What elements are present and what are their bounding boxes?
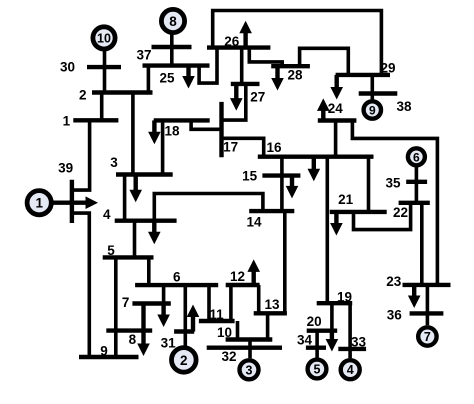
svg-text:20: 20 xyxy=(307,314,322,329)
load arrow 12 xyxy=(247,259,260,285)
svg-text:30: 30 xyxy=(60,60,75,75)
bus 3 bar xyxy=(116,172,173,176)
bus 20 bar xyxy=(307,329,338,333)
svg-text:4: 4 xyxy=(103,207,111,222)
svg-text:13: 13 xyxy=(264,297,280,312)
bus 37 bar xyxy=(152,45,192,49)
generator G10 xyxy=(93,27,115,49)
svg-text:14: 14 xyxy=(246,214,262,229)
bus 36 bar xyxy=(410,311,444,315)
svg-text:5: 5 xyxy=(314,363,321,377)
svg-text:38: 38 xyxy=(396,99,412,114)
wire 26-28 xyxy=(249,48,282,67)
bus 14 bar xyxy=(249,209,294,213)
wire 1-2 xyxy=(100,93,104,121)
wire 19-20 xyxy=(330,303,334,331)
bus 24 bar xyxy=(318,118,357,122)
bus 23 bar xyxy=(403,283,451,287)
svg-text:39: 39 xyxy=(58,160,73,175)
bus 31 bar xyxy=(174,329,194,333)
svg-text:36: 36 xyxy=(387,308,403,323)
svg-text:4: 4 xyxy=(347,363,354,377)
wire 22-23 xyxy=(420,203,424,285)
wire 26-27 xyxy=(240,48,244,84)
wire 26-29 xyxy=(213,11,382,75)
svg-text:10: 10 xyxy=(97,31,111,45)
bus 28 bar xyxy=(271,64,310,68)
bus 10 bar xyxy=(226,337,273,341)
bus 32 bar xyxy=(207,346,282,350)
svg-text:35: 35 xyxy=(385,176,401,191)
wire 13-14 xyxy=(283,211,287,313)
svg-text:22: 22 xyxy=(393,205,408,220)
svg-text:37: 37 xyxy=(136,48,151,63)
wire 28-29 xyxy=(300,48,349,75)
generator G3 xyxy=(240,360,259,379)
load arrow 31 xyxy=(187,305,200,332)
svg-text:10: 10 xyxy=(217,325,232,340)
bus 38 bar xyxy=(359,91,398,95)
wire 29-38-gen9 xyxy=(370,75,374,100)
bus 15 bar xyxy=(262,173,300,177)
svg-text:21: 21 xyxy=(338,192,354,207)
svg-text:31: 31 xyxy=(161,336,177,351)
bus 6 bar xyxy=(135,283,218,287)
bus 35 bar xyxy=(406,180,427,184)
wire 18-3 xyxy=(161,120,165,174)
wire 12-13 xyxy=(257,285,261,313)
svg-text:9: 9 xyxy=(100,344,108,359)
generator G1 xyxy=(27,191,51,215)
svg-text:12: 12 xyxy=(230,269,245,284)
wire 39-9 xyxy=(70,213,89,357)
generator G9 xyxy=(364,101,381,118)
wire 17-27 xyxy=(222,84,246,120)
svg-text:17: 17 xyxy=(223,140,238,155)
wire 3-4 xyxy=(123,175,127,221)
svg-text:6: 6 xyxy=(413,150,420,164)
svg-text:3: 3 xyxy=(110,155,118,170)
bus 9 bar xyxy=(79,355,139,359)
svg-text:19: 19 xyxy=(337,290,352,305)
wire 6-7 xyxy=(162,285,166,303)
svg-text:9: 9 xyxy=(369,104,376,118)
svg-text:7: 7 xyxy=(122,295,130,310)
load arrow 21 xyxy=(330,212,343,236)
wire 17-18 xyxy=(191,120,221,129)
wire 16-21 xyxy=(367,157,371,212)
svg-text:24: 24 xyxy=(328,101,344,116)
svg-text:27: 27 xyxy=(250,89,265,104)
load arrow 28 xyxy=(271,66,284,90)
svg-text:15: 15 xyxy=(242,169,258,184)
load arrow 18 xyxy=(148,120,161,144)
bus 19 bar xyxy=(317,301,353,305)
load arrow 16 xyxy=(308,157,321,182)
generator G2 xyxy=(172,348,197,373)
wire 19-33-gen4 xyxy=(348,303,352,358)
bus 39 bar xyxy=(70,180,74,223)
bus 11 bar xyxy=(199,319,235,323)
wire 16-24 xyxy=(334,121,338,157)
generator G4 xyxy=(341,360,360,379)
wire 6-31-gen2 xyxy=(184,285,188,345)
svg-text:8: 8 xyxy=(129,332,137,347)
bus 13 bar xyxy=(254,311,287,315)
svg-text:6: 6 xyxy=(173,270,181,285)
wire 10-32-gen3 xyxy=(248,340,252,359)
load arrow 25 xyxy=(182,66,195,89)
load arrow 8 xyxy=(137,304,150,357)
bus 7 bar xyxy=(132,301,170,305)
svg-text:33: 33 xyxy=(351,335,367,350)
wire gen8-37-25 xyxy=(170,35,174,66)
svg-text:11: 11 xyxy=(209,307,224,322)
bus 33 bar xyxy=(338,347,366,351)
bus 18 bar xyxy=(154,118,210,122)
bus 22 bar xyxy=(399,201,430,205)
load arrow 20 xyxy=(326,331,339,352)
bus 4 bar xyxy=(115,218,177,222)
load arrow 15 xyxy=(286,176,299,199)
bus 29 bar xyxy=(336,73,390,77)
svg-text:8: 8 xyxy=(169,14,177,29)
svg-text:23: 23 xyxy=(386,274,402,289)
wire 4-14 xyxy=(154,194,263,221)
bus 27 bar xyxy=(231,82,260,86)
wire 5-8-9 xyxy=(114,257,118,357)
load arrow 24 xyxy=(317,98,330,120)
load arrow 7 xyxy=(157,304,170,328)
wire 10-11 xyxy=(236,321,240,340)
svg-text:2: 2 xyxy=(180,353,188,368)
bus 16 bar xyxy=(258,154,374,158)
svg-text:1: 1 xyxy=(35,196,43,211)
svg-text:5: 5 xyxy=(107,243,115,258)
wire 21-22 xyxy=(354,203,411,230)
wire 24-23 xyxy=(352,121,437,285)
svg-text:28: 28 xyxy=(287,67,303,82)
wire 15-16 xyxy=(280,157,284,176)
load arrow 29 xyxy=(330,75,343,100)
wire gen10-30-2 xyxy=(103,51,107,93)
svg-text:32: 32 xyxy=(221,349,236,364)
wire 1-39 xyxy=(70,120,90,190)
svg-text:3: 3 xyxy=(246,363,253,377)
generator G6 xyxy=(408,148,425,165)
bus 21 bar xyxy=(330,210,387,214)
bus 5 bar xyxy=(103,255,154,259)
svg-text:7: 7 xyxy=(424,330,431,344)
bus 8 bar xyxy=(106,328,152,332)
wire 6-11 xyxy=(207,285,211,321)
generator G7 xyxy=(418,327,436,345)
svg-text:26: 26 xyxy=(224,34,240,49)
generator G5 xyxy=(308,360,327,379)
wire 14-15 xyxy=(280,176,284,212)
bus 30 bar xyxy=(87,65,121,69)
wire 23-36-gen7 xyxy=(426,285,430,325)
svg-text:25: 25 xyxy=(159,71,175,86)
wire 2-3 xyxy=(131,93,135,175)
wire 2-25 xyxy=(147,66,151,93)
wire 16-17 xyxy=(222,138,264,156)
wire 11-12 xyxy=(229,285,233,321)
generator G8 xyxy=(161,9,184,32)
svg-text:34: 34 xyxy=(297,332,313,347)
bus 2 bar xyxy=(92,90,153,94)
load arrow 3 xyxy=(129,175,142,203)
load arrow 4 xyxy=(148,221,161,245)
bus 25 bar xyxy=(143,63,210,67)
bus 17 bar xyxy=(219,102,223,157)
load arrow 23 xyxy=(408,285,421,308)
wire 16-19 xyxy=(325,157,329,304)
wire 10-13 xyxy=(266,313,270,339)
wire 4-5 xyxy=(133,221,137,258)
bus 1 bar xyxy=(73,118,118,122)
svg-text:29: 29 xyxy=(380,61,395,76)
wire gen6-35-22 xyxy=(415,167,419,203)
load arrow 26 xyxy=(239,21,252,48)
svg-text:16: 16 xyxy=(266,140,282,155)
svg-text:2: 2 xyxy=(79,87,87,102)
generator G1 injection arrow xyxy=(53,196,98,209)
wire 20-34-gen5 xyxy=(315,331,319,358)
wire 25-26 xyxy=(199,48,217,84)
bus 26 bar xyxy=(207,45,270,49)
load arrow 27 xyxy=(230,84,243,111)
wire 5-6 xyxy=(147,257,151,285)
bus 12 bar xyxy=(226,283,260,287)
svg-text:18: 18 xyxy=(164,124,180,139)
bus 34 bar xyxy=(306,346,326,350)
svg-text:1: 1 xyxy=(63,113,71,128)
